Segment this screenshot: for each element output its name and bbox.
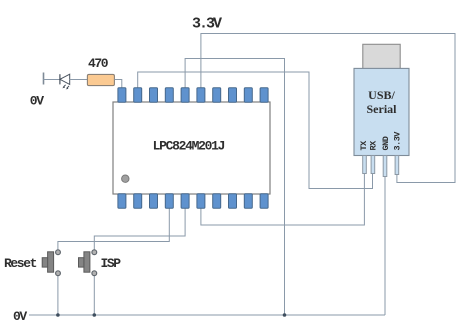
- svg-text:0V: 0V: [30, 93, 44, 108]
- svg-text:LPC824M201J: LPC824M201J: [153, 139, 225, 154]
- wire LED cathode to resistor: [70, 79, 88, 81]
- svg-text:ISP: ISP: [101, 256, 122, 271]
- wire bottom pin6 to TX: [201, 174, 365, 226]
- USB module pin GND: [383, 156, 387, 177]
- wire resistor to pin1: [114, 80, 121, 89]
- IC U1 bottom pins: [118, 194, 268, 209]
- node 0V terminal tick (left): [43, 73, 45, 85]
- USB module pin 3.3V: [395, 156, 399, 175]
- svg-text:TX: TX: [359, 140, 369, 151]
- USB/Serial module U2: USB connector tab: [363, 44, 400, 68]
- svg-text:USB/: USB/: [368, 88, 395, 102]
- wire from 0V tick to LED anode: [44, 79, 60, 81]
- junction dot ISP/0V: [93, 313, 97, 317]
- svg-text:RX: RX: [369, 140, 379, 151]
- wire bottom pin5 to ISP button: [94, 208, 185, 250]
- USB/Serial module U2 body: [354, 68, 409, 155]
- IC U1 pin-1 marker dot: [122, 175, 129, 182]
- IC U1 LPC824M201J body: [113, 102, 270, 194]
- wire GND pin to 0V rail: [384, 177, 386, 316]
- junction dot pin5-wire/0V: [283, 313, 287, 317]
- svg-text:3.3V: 3.3V: [192, 16, 222, 33]
- svg-text:Reset: Reset: [4, 256, 37, 271]
- junction dot Reset/0V: [56, 313, 60, 317]
- svg-text:0V: 0V: [13, 309, 27, 324]
- svg-text:GND: GND: [381, 136, 391, 150]
- pushbutton SW1 Reset: [42, 250, 60, 276]
- wire pin2 to RX: [138, 72, 373, 189]
- USB module pin RX: [371, 156, 375, 174]
- IC U1 top pins: [118, 88, 268, 103]
- wire ISP bottom to 0V rail: [93, 276, 95, 315]
- svg-text:470: 470: [88, 56, 109, 71]
- wire bottom pin4 to Reset button: [58, 208, 169, 250]
- wire pin6 to 3.3V rail and USB 3.3V pin: [201, 34, 455, 183]
- USB module pin TX: [363, 156, 367, 174]
- wire pin5 to 0V rail: [185, 59, 284, 316]
- LED D1: [60, 74, 70, 89]
- svg-text:3.3V: 3.3V: [393, 131, 403, 151]
- pushbutton SW2 ISP: [79, 250, 97, 276]
- wire 0V rail: [29, 314, 385, 316]
- wire Reset bottom to 0V rail: [57, 276, 59, 315]
- resistor R1 470: [87, 74, 114, 85]
- svg-text:Serial: Serial: [367, 102, 398, 116]
